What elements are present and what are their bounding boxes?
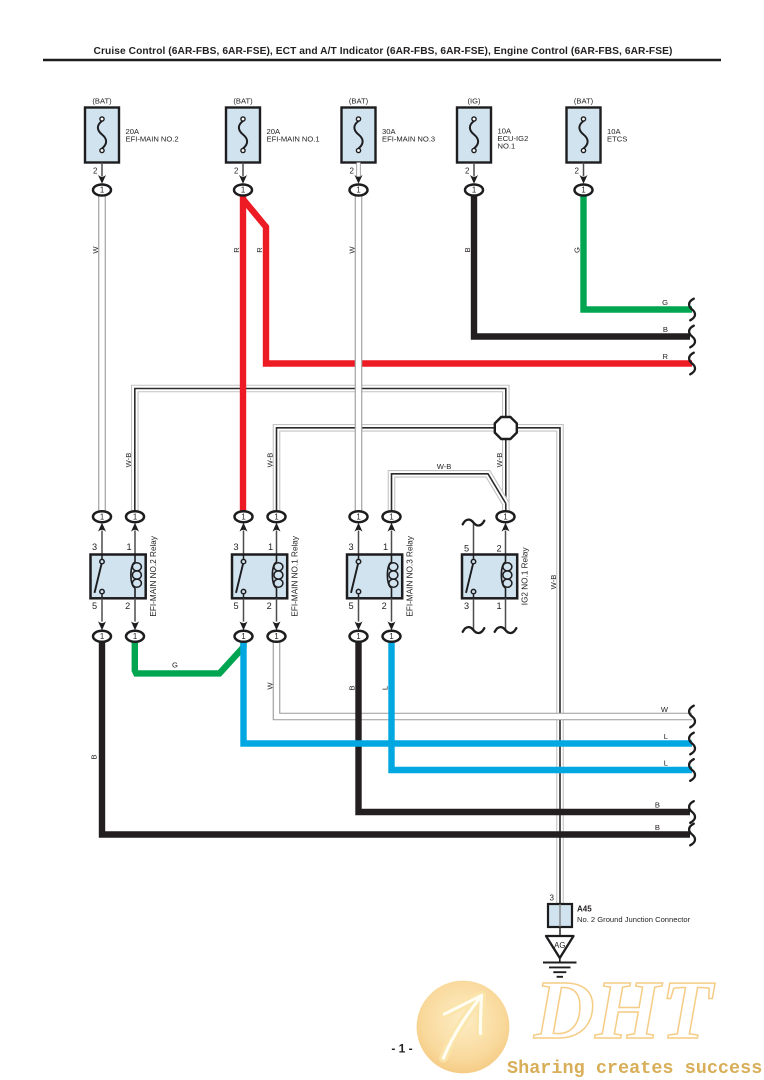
svg-text:EFI-MAIN NO.1: EFI-MAIN NO.1 [267, 135, 320, 144]
connector 1 below pin2 [268, 631, 286, 642]
svg-text:1: 1 [241, 632, 245, 641]
svg-text:A45: A45 [577, 905, 592, 914]
connector 1 below pin5 [350, 631, 368, 642]
svg-text:5: 5 [92, 601, 97, 611]
connector 1 below fuse [575, 185, 593, 196]
svg-text:1: 1 [126, 542, 131, 552]
svg-text:1: 1 [274, 632, 278, 641]
svg-text:ETCS: ETCS [607, 135, 627, 144]
break symbol R wire right edge [689, 353, 695, 375]
connector 1 above pin1 [383, 511, 401, 522]
svg-text:IG2 NO.1 Relay: IG2 NO.1 Relay [521, 547, 530, 606]
wire W-B junction to ground connector A45 [515, 428, 560, 904]
ground triangle AG [546, 936, 574, 958]
svg-text:1: 1 [356, 186, 360, 195]
wire W fuse EFI-MAIN NO.2 to relay1 pin3 [98, 196, 106, 512]
svg-text:L: L [664, 759, 668, 768]
svg-text:G: G [172, 661, 178, 670]
svg-text:1: 1 [581, 186, 585, 195]
svg-text:2: 2 [465, 167, 470, 176]
svg-text:2: 2 [234, 167, 239, 176]
svg-text:B: B [663, 325, 668, 334]
connector 1 below fuse [465, 185, 483, 196]
svg-text:W-B: W-B [437, 462, 452, 471]
connector 1 above pin1 [268, 511, 286, 522]
connector 1 below fuse [93, 185, 111, 196]
svg-text:1: 1 [241, 512, 245, 521]
svg-text:5: 5 [233, 601, 238, 611]
wire stub IG2 pin5 [473, 523, 475, 555]
svg-text:(BAT): (BAT) [574, 97, 594, 106]
svg-text:G: G [662, 298, 668, 307]
watermark arrow [444, 996, 482, 1059]
svg-text:1: 1 [274, 512, 278, 521]
break symbol IG2 pin1 [495, 627, 517, 633]
svg-text:1: 1 [133, 632, 137, 641]
svg-text:(BAT): (BAT) [349, 97, 369, 106]
svg-text:3: 3 [550, 893, 555, 902]
svg-text:W: W [266, 682, 275, 690]
svg-text:AG: AG [554, 941, 565, 950]
connector 1 above pin3 [350, 511, 368, 522]
wire W-B junction bottom to IG2 relay pin2 [502, 438, 510, 512]
connector 1 below pin5 [235, 631, 253, 642]
svg-text:1: 1 [389, 632, 393, 641]
wire W relay2 pin2 to right [277, 642, 693, 717]
node junction octagon [495, 417, 517, 439]
svg-text:L: L [664, 732, 668, 741]
svg-text:No. 2 Ground Junction Connecto: No. 2 Ground Junction Connector [577, 915, 691, 924]
svg-text:L: L [381, 686, 390, 690]
connector 1 above pin3 [93, 511, 111, 522]
junction connector A45 [548, 904, 572, 927]
connector 1 below pin2 [383, 631, 401, 642]
svg-text:B: B [655, 801, 660, 810]
svg-text:1: 1 [356, 632, 360, 641]
svg-text:EFI-MAIN NO.3: EFI-MAIN NO.3 [382, 135, 435, 144]
wire L relay3 pin2 to right [392, 641, 693, 770]
svg-text:R: R [663, 352, 669, 361]
break symbol IG2 pin3 [463, 627, 485, 633]
svg-text:W-B: W-B [549, 575, 558, 590]
svg-text:1: 1 [472, 186, 476, 195]
wire stub IG2 pin3 [473, 598, 475, 630]
break symbol B wire right edge [689, 801, 695, 823]
svg-text:W-B: W-B [124, 453, 133, 468]
svg-text:3: 3 [233, 542, 238, 552]
svg-text:EFI-MAIN NO.3 Relay: EFI-MAIN NO.3 Relay [406, 535, 415, 616]
svg-text:1: 1 [503, 512, 507, 521]
svg-text:1: 1 [496, 601, 501, 611]
svg-text:W-B: W-B [266, 453, 275, 468]
wire A45 to ground [559, 927, 561, 936]
wire G fuse ETCS to right [584, 196, 693, 310]
svg-text:2: 2 [575, 167, 580, 176]
svg-text:DHT: DHT [533, 964, 716, 1057]
svg-text:3: 3 [348, 542, 353, 552]
svg-text:2: 2 [350, 167, 355, 176]
svg-text:EFI-MAIN NO.2: EFI-MAIN NO.2 [126, 135, 179, 144]
svg-text:1: 1 [100, 512, 104, 521]
svg-text:1: 1 [100, 186, 104, 195]
svg-text:G: G [573, 247, 582, 253]
svg-text:W-B: W-B [495, 453, 504, 468]
break symbol L wire right edge [689, 733, 695, 755]
svg-text:B: B [90, 754, 99, 759]
wire B relay3 pin5 to right [359, 641, 691, 812]
svg-text:2: 2 [93, 167, 98, 176]
connector 1 below fuse [350, 185, 368, 196]
svg-text:R: R [255, 247, 264, 253]
svg-text:2: 2 [267, 601, 272, 611]
svg-text:EFI-MAIN NO.1 Relay: EFI-MAIN NO.1 Relay [291, 535, 300, 616]
wire W-B relay1 pin1 to junction (top run) [135, 389, 506, 512]
svg-text:B: B [655, 823, 660, 832]
svg-text:1: 1 [100, 632, 104, 641]
svg-text:W: W [91, 246, 100, 254]
svg-text:B: B [463, 247, 472, 252]
svg-text:- 1 -: - 1 - [391, 1042, 412, 1056]
connector 1 above IG2 pin2 [497, 511, 515, 522]
svg-text:1: 1 [268, 542, 273, 552]
svg-text:R: R [232, 247, 241, 253]
wire B relay1 pin5 to right [102, 641, 690, 835]
ground symbol [559, 958, 561, 963]
svg-text:2: 2 [496, 543, 501, 553]
svg-text:(BAT): (BAT) [233, 97, 253, 106]
svg-text:Cruise Control (6AR-FBS, 6AR-F: Cruise Control (6AR-FBS, 6AR-FSE), ECT a… [94, 46, 673, 57]
wire G relay1 pin2 to relay2 pin5 [135, 641, 244, 673]
break symbol IG2 pin5 [463, 520, 485, 526]
svg-text:1: 1 [389, 512, 393, 521]
svg-text:5: 5 [348, 601, 353, 611]
svg-text:2: 2 [125, 601, 130, 611]
connector 1 below fuse [234, 185, 252, 196]
wire R branch to right [243, 200, 692, 364]
connector 1 below pin2 [126, 631, 144, 642]
title rule [43, 59, 721, 61]
wire R fuse EFI-MAIN NO.1 to relay2 pin3 [240, 196, 246, 512]
svg-text:NO.1: NO.1 [498, 142, 516, 151]
wire W fuse EFI-MAIN NO.3 to relay3 pin3 [355, 196, 363, 512]
wire W-B relay3 pin1 to IG2 relay pin2 [392, 474, 506, 512]
connector 1 below pin5 [93, 631, 111, 642]
break symbol G wire right edge [689, 299, 695, 321]
connector 1 above pin3 [235, 511, 253, 522]
svg-text:EFI-MAIN NO.2 Relay: EFI-MAIN NO.2 Relay [149, 535, 158, 616]
break symbol B wire right edge [689, 326, 695, 348]
svg-text:1: 1 [356, 512, 360, 521]
svg-text:3: 3 [464, 601, 469, 611]
svg-text:B: B [348, 685, 357, 690]
wire B fuse ECU-IG2 to right [474, 196, 690, 337]
svg-text:3: 3 [92, 542, 97, 552]
svg-text:1: 1 [133, 512, 137, 521]
connector 1 above pin1 [126, 511, 144, 522]
break symbol W wire right edge [689, 706, 695, 728]
svg-text:1: 1 [241, 186, 245, 195]
svg-text:1: 1 [383, 542, 388, 552]
svg-text:5: 5 [464, 543, 469, 553]
svg-text:Sharing creates success: Sharing creates success [507, 1058, 762, 1079]
wire L relay2 pin5 to right [244, 641, 693, 744]
svg-text:W: W [348, 246, 357, 254]
svg-text:(BAT): (BAT) [92, 97, 112, 106]
wire stub IG2 pin1 [505, 598, 507, 630]
svg-text:2: 2 [382, 601, 387, 611]
svg-text:W: W [661, 705, 669, 714]
svg-text:(IG): (IG) [467, 97, 481, 106]
wire W-B relay2 pin1 to junction (left run) [277, 428, 498, 512]
break symbol L wire right edge [689, 759, 695, 781]
break symbol B wire right edge [689, 824, 695, 846]
